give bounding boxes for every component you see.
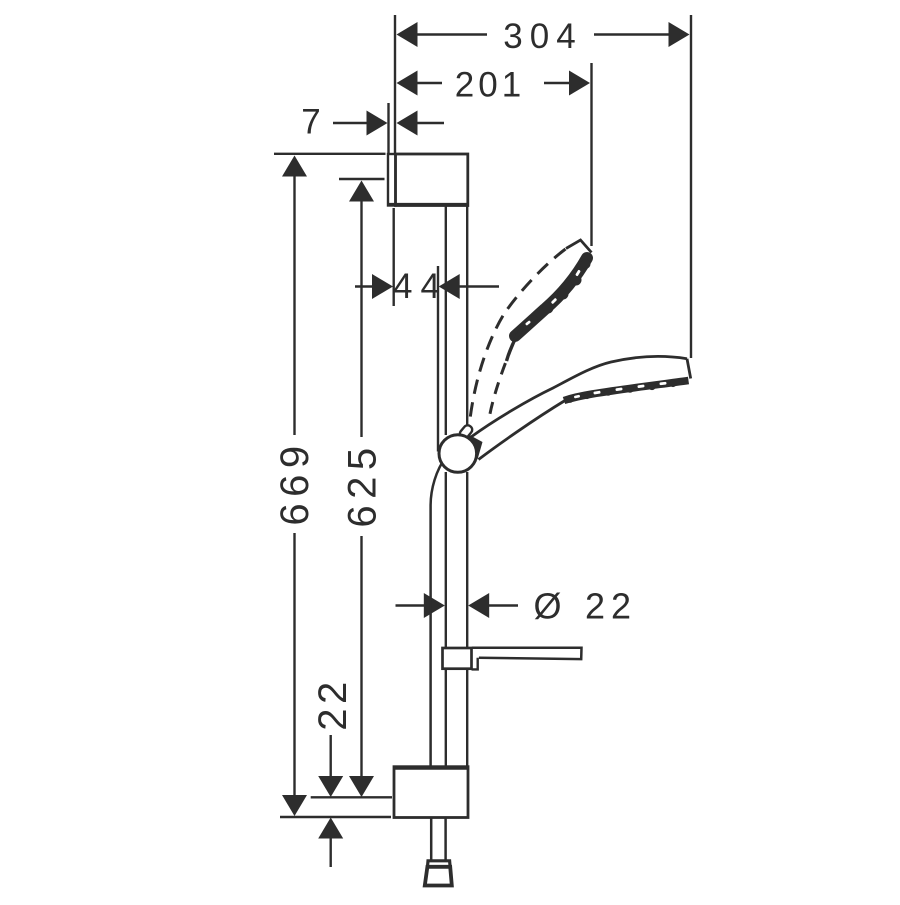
shower head spray band solid bumps	[567, 380, 677, 403]
extension line right head edge x=691	[690, 15, 692, 358]
shower head right rim	[687, 359, 691, 379]
svg-text:669: 669	[273, 439, 317, 525]
dashed handle left outline	[470, 249, 566, 419]
svg-text:22: 22	[585, 586, 637, 627]
dimension 22 bottom tail	[330, 838, 332, 867]
dimension 44 right tail	[459, 285, 499, 287]
top bracket body	[396, 154, 468, 206]
bar lower segment	[445, 670, 447, 768]
svg-text:304: 304	[503, 17, 582, 56]
dimension 44 left arrow	[372, 274, 393, 299]
dimension 625 top extension line	[339, 178, 385, 180]
dimension 201 left arrow	[397, 71, 418, 96]
dashed head tip cap	[566, 240, 592, 253]
hose end cone	[425, 867, 452, 886]
dimension diameter 22 right arrow	[468, 593, 489, 618]
bar upper segment	[445, 206, 447, 435]
dimension diameter 22 left tail	[396, 604, 427, 606]
dimension diameter 22 right tail	[488, 604, 518, 606]
shower head spray band solid	[564, 381, 689, 401]
dimension 625 vertical line	[360, 201, 362, 437]
slider nub	[458, 424, 474, 440]
dimension 669 down arrow	[282, 795, 307, 816]
dashed head spray band	[515, 258, 587, 336]
dimension 625 up arrow	[349, 181, 374, 202]
dimension 304 left arrow	[397, 22, 418, 47]
svg-text:44: 44	[393, 267, 448, 306]
dimension 669 up arrow	[282, 156, 307, 177]
bottom bracket	[394, 767, 468, 818]
slider circle	[439, 435, 477, 473]
dimension 669 bottom extension line	[280, 816, 391, 818]
bar middle segment	[445, 472, 447, 647]
dimension 669 vertical line	[293, 176, 295, 435]
dimension 304 line	[415, 33, 487, 35]
soap dish clamp notch	[472, 648, 478, 669]
svg-text:Ø: Ø	[533, 586, 561, 627]
shower handle bottom outline	[479, 401, 566, 460]
bar end extension line y=797	[311, 796, 392, 798]
shower head spray band highlights	[574, 382, 667, 399]
dimension 22 down arrow	[318, 776, 343, 797]
handle to slider dark wedge	[464, 435, 483, 460]
soap dish arm	[472, 647, 582, 660]
dashed head spray band lower rim	[507, 327, 524, 361]
dimension 7 line	[333, 122, 368, 124]
dimension 44 right extension line	[437, 266, 439, 452]
wall plate	[388, 154, 396, 206]
dimension 669 top extension line	[274, 153, 386, 155]
dimension 44 right arrow	[439, 274, 460, 299]
hose below bracket	[430, 818, 433, 862]
svg-text:201: 201	[455, 66, 525, 105]
extension line wall plate front x=388.5	[387, 103, 389, 153]
dimension 201 line	[415, 82, 442, 84]
dimension 44 left extension line	[393, 208, 395, 306]
hose end nut	[428, 861, 451, 867]
top bracket thick bottom edge	[388, 203, 468, 207]
extension line 201 right x=591.5	[590, 63, 592, 246]
shower handle top outline	[471, 356, 687, 437]
dimension 625 down arrow	[349, 776, 374, 797]
svg-text:22: 22	[311, 677, 355, 731]
dimension 44 left tail	[355, 285, 374, 287]
dimension 22 up arrow	[318, 818, 343, 839]
dimension diameter 22 left arrow	[424, 593, 445, 618]
dashed handle right outline	[489, 344, 513, 419]
dimension 201 right arrow	[569, 71, 590, 96]
dimension 22 bottom vertical line upper	[330, 735, 332, 778]
svg-text:7: 7	[301, 103, 320, 142]
dashed head spray band highlights	[525, 270, 581, 326]
dimension 7 right-pointing arrow	[367, 111, 388, 136]
bottom bracket thick top edge	[394, 766, 468, 770]
dimension 304 right arrow	[669, 22, 690, 47]
extension line left bracket face x=395	[394, 15, 396, 153]
svg-text:625: 625	[341, 441, 385, 527]
hose upper curve	[431, 457, 446, 767]
dashed head spray band bumps	[514, 259, 590, 335]
dimension 7 left-pointing arrow	[397, 111, 418, 136]
soap dish clamp block	[443, 648, 472, 669]
